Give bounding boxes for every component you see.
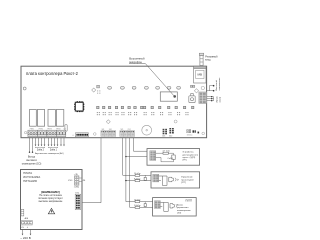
branch to box2 pin2: [126, 180, 135, 182]
terminal block X4: [120, 131, 135, 137]
warning text: [38, 194, 63, 203]
svg-text:Зона 2: Зона 2: [37, 150, 45, 152]
PSU mains terminal: [21, 220, 33, 229]
box2 jack symbol: [159, 176, 167, 185]
MB module: [194, 66, 206, 83]
svg-text:ПЛГП: ПЛГП: [186, 199, 193, 202]
arrowheads: [35, 145, 65, 147]
wire A down: [122, 138, 124, 175]
svg-text:Акустическое оповещение (АО): Акустическое оповещение (АО): [35, 152, 64, 155]
relay K2: [37, 110, 44, 127]
wire B down: [125, 138, 127, 202]
terminal block TB1 group1: [28, 130, 66, 136]
corner pin: [198, 132, 200, 134]
svg-text:8,2кОм: 8,2кОм: [134, 178, 141, 180]
svg-text:6: 6: [73, 135, 74, 137]
box1 UDP: [147, 149, 200, 166]
relay K1: [30, 110, 37, 127]
capacitor right of relay K4: [65, 125, 67, 132]
microphone rect: [160, 92, 177, 101]
svg-text:плата контроллера Рокот-2: плата контроллера Рокот-2: [26, 71, 79, 76]
svg-text:Вынос: Вынос: [177, 204, 183, 206]
terminal screws group: [28, 132, 66, 135]
LED row: [108, 86, 181, 89]
svg-text:~ 220 В: ~ 220 В: [20, 236, 30, 240]
svg-text:ЗнПоСн: ЗнПоСн: [187, 135, 193, 137]
svg-text:+ЛБ: +ЛБ: [82, 180, 86, 182]
pin header XP1: [75, 133, 88, 137]
bracket zone 2: [35, 147, 44, 148]
branch to box2 pin1: [123, 174, 135, 176]
mains wires: [23, 230, 31, 235]
svg-text:СпD-1: СпD-1: [168, 158, 175, 160]
svg-text:1 (ЛБ): 1 (ЛБ): [74, 187, 79, 189]
box3 jack symbol: [160, 202, 168, 211]
wires SO pair: [30, 138, 33, 152]
pin group bottom right: [187, 130, 191, 133]
PSU connector XT1: [75, 192, 80, 209]
hole circle bottom-left of strip: [24, 131, 26, 133]
svg-text:Встроенный: Встроенный: [129, 57, 145, 61]
wire D to box1 pin1: [134, 138, 150, 151]
warning triangle: [48, 208, 54, 213]
PSU connector K3-1: [68, 174, 86, 189]
svg-text:МВ: МВ: [198, 73, 203, 77]
relay K4: [56, 110, 63, 127]
box1 switch symbol: [172, 155, 175, 159]
svg-text:ПИТАНИЯ: ПИТАНИЯ: [23, 179, 37, 183]
svg-text:микрофон: микрофон: [129, 60, 142, 64]
microphone element: [173, 95, 176, 98]
svg-text:Устройства: Устройства: [183, 151, 195, 154]
svg-text:ПИ2: ПИ2: [128, 129, 131, 131]
svg-text:высокое напряжение: высокое напряжение: [39, 200, 63, 203]
wires right bottom group: [207, 97, 214, 101]
box1 connector: [150, 151, 156, 161]
relay K3: [48, 110, 55, 127]
svg-text:ЗМ2: ЗМ2: [109, 129, 112, 131]
box2 connector: [153, 174, 159, 182]
svg-text:Выносной: Выносной: [215, 80, 218, 91]
svg-text:Управление: Управление: [181, 177, 193, 179]
IC U1 socket: [74, 101, 84, 112]
callout line to mic: [129, 64, 174, 96]
dark pin pair: [193, 130, 195, 132]
smd row1 square: [97, 85, 100, 88]
mounting hole diamond bottom-center: [106, 120, 110, 124]
mounting hole diamond right: [194, 89, 198, 93]
box2 UGT: [151, 172, 200, 188]
transformer/sounder right: [189, 94, 195, 103]
right edge connector X2: [199, 92, 207, 103]
wires right top group: [207, 86, 214, 91]
smd dots under row1: [97, 90, 100, 93]
smd pair top right: [190, 85, 192, 87]
wire B to box1 pin2: [126, 156, 150, 158]
svg-text:дистанционного: дистанционного: [183, 154, 199, 156]
svg-text:(УГТ): (УГТ): [181, 182, 186, 184]
resistor 10k box2: [135, 174, 140, 176]
svg-text:ЗМ1: ЗМ1: [101, 129, 104, 131]
hole circle right-top: [201, 86, 204, 89]
svg-text:10 кОм: 10 кОм: [134, 199, 141, 201]
controller board outline: [21, 66, 207, 138]
hole circle center-bottom: [174, 120, 177, 123]
svg-text:оповещением: оповещением: [177, 210, 191, 212]
svg-text:пуска - (УДП): пуска - (УДП): [183, 157, 196, 159]
svg-text:(РУ): (РУ): [183, 160, 187, 162]
svg-text:трансляцией: трансляцией: [181, 178, 194, 181]
mounting hole top-left: [23, 87, 26, 90]
bracket zone 1: [48, 147, 57, 148]
vertical resistor box3: [144, 204, 146, 207]
branch to box3 pin2: [130, 206, 135, 208]
label SO output: [22, 156, 42, 166]
terminal block X3: [101, 131, 116, 137]
PSU title: [23, 171, 40, 183]
zone wires with arrows: [36, 138, 65, 145]
PSU battery connector: [21, 209, 29, 220]
box1 text: [183, 151, 199, 162]
power wire from header to PSU: [81, 138, 101, 203]
component row2 squares: [97, 106, 194, 108]
resistor 5.6k box3: [135, 207, 140, 209]
svg-text:считыватель: считыватель: [219, 77, 221, 91]
svg-text:управления: управления: [177, 207, 188, 209]
mounting hole diamond left-center: [92, 88, 96, 92]
wire C down: [129, 138, 131, 208]
hole circle bottom right: [202, 132, 205, 135]
box3 PLGP: [153, 198, 197, 216]
svg-text:вход: вход: [205, 59, 211, 62]
relay terminal labels: [30, 128, 67, 130]
svg-text:5,6кОм: 5,6кОм: [134, 205, 141, 207]
reserve input connector stub: [199, 53, 203, 65]
vertical resistor box2: [144, 177, 146, 180]
jumper block 1: [163, 129, 167, 135]
svg-text:Зона 1: Зона 1: [50, 150, 58, 152]
resistor 8.2k box2: [135, 180, 140, 182]
hole circle bottom mid: [94, 133, 97, 136]
svg-text:ПИ1: ПИ1: [120, 129, 123, 131]
svg-text:(ЗО): (ЗО): [177, 213, 182, 215]
resistor 10k box3: [135, 201, 140, 203]
svg-text:10 кОм: 10 кОм: [134, 173, 141, 175]
buzzer circle: [142, 125, 152, 135]
svg-text:связи: связи: [219, 96, 221, 102]
branch to box3 pin1: [126, 201, 135, 203]
svg-text:Линия: Линия: [216, 95, 218, 102]
box3 connector: [154, 201, 160, 209]
jumper block 2: [169, 128, 173, 134]
box3 text: [177, 204, 191, 214]
svg-text:оповещения (СО): оповещения (СО): [22, 162, 42, 165]
PSU board box: [21, 170, 83, 230]
box2 text: [181, 177, 194, 184]
